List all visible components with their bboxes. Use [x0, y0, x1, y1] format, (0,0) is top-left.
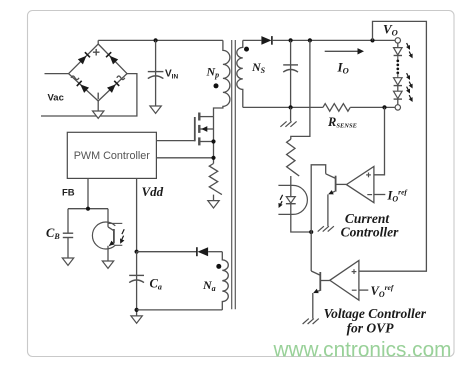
LED D3 light arrows: [407, 43, 409, 47]
op-amp U4 minus: [352, 289, 357, 291]
bridge diode D4 (bottom-right): [107, 84, 116, 93]
capacitor Ca plates: [129, 274, 144, 276]
node bottom rail ground junction: [289, 105, 293, 109]
LED D5 light arrows: [407, 87, 409, 91]
phototransistor arc: [92, 222, 115, 249]
wire secondary rail right: [272, 39, 395, 41]
wire Q3 emitter to ground: [312, 293, 314, 319]
wire Q3 base to opamp: [320, 280, 330, 282]
wire top rail: [98, 39, 223, 41]
wire Q3 collector path: [310, 232, 312, 271]
ground Ca: [131, 316, 142, 323]
wire LED2 lead: [397, 74, 399, 78]
node Ca bottom junction: [135, 308, 139, 312]
bridge diode D3 (bottom-left): [80, 84, 89, 92]
wire Q2 emitter to ground: [327, 194, 329, 226]
wire sense branch: [291, 40, 310, 139]
wire Ca top: [136, 252, 138, 316]
bridge diode D2 (right-top): [110, 56, 119, 65]
wire phototransistor collector stub: [108, 222, 122, 224]
wire secondary bottom left: [243, 106, 323, 108]
node sense junction: [211, 156, 215, 160]
transformer core: [231, 40, 233, 309]
svg-text:Vdd: Vdd: [142, 184, 164, 199]
node current sense junction: [382, 105, 386, 109]
node Q1 source junction: [211, 139, 215, 143]
wire U3 plus input: [374, 107, 385, 174]
LED string ellipsis dots: [396, 60, 399, 63]
transistor Q2 collector diagonal: [326, 174, 335, 178]
node sense branch junction: [308, 38, 312, 42]
capacitor Vin plates: [148, 71, 164, 73]
diode output D1: [261, 36, 271, 45]
wire Q1 body stub: [201, 128, 214, 130]
LED D4: [394, 78, 403, 85]
op-amp U4 triangle: [330, 261, 359, 301]
wire aux return: [137, 309, 223, 311]
transistor Q3 collector diagonal: [311, 271, 320, 275]
phototransistor emitter diagonal: [109, 242, 114, 246]
op-amp U3 minus: [367, 194, 372, 196]
wire LED1 lead: [397, 43, 399, 48]
wire aux diode to Na: [208, 251, 222, 253]
wire OVP rail: [359, 21, 427, 271]
bridge plus mark: [93, 51, 100, 53]
wire bridge bottom to ground: [97, 101, 99, 111]
wire opto LED cathode: [291, 204, 311, 232]
resistor sense: [209, 164, 222, 195]
wire Q1 source stub: [201, 141, 214, 143]
wire bridge output to top rail: [97, 40, 99, 44]
LED D5: [394, 91, 403, 98]
bridge rectifier diamond: [69, 44, 127, 101]
wire PWM current sense: [156, 157, 213, 159]
wire Q1 drain stub: [201, 116, 214, 118]
ground bridge: [93, 111, 104, 118]
ground phototransistor: [102, 261, 113, 268]
svg-text:Controller: Controller: [341, 225, 400, 240]
wire PWM FB pin: [87, 178, 89, 208]
svg-text:PWM Controller: PWM Controller: [74, 150, 151, 162]
node FB junction: [86, 207, 90, 211]
wire CB bottom: [67, 238, 69, 258]
wire phototransistor emitter stub: [115, 244, 122, 246]
node OVP branch junction: [370, 38, 374, 42]
wire FB horizontal: [68, 208, 108, 210]
wire Vac top lead: [45, 73, 69, 75]
ground Vin: [150, 106, 161, 113]
transistor Q2 emitter arrow: [328, 190, 334, 194]
diode aux D2: [198, 247, 209, 256]
bridge ac mark right: [117, 76, 125, 80]
node Vin junction: [154, 38, 158, 42]
arrow Io: [325, 50, 359, 52]
svg-text:FB: FB: [62, 188, 75, 199]
wire CB top: [67, 209, 69, 233]
transistor Q3 base bar: [319, 272, 321, 291]
bridge diode D1 (left-top): [78, 56, 87, 65]
ground Q3: [313, 319, 319, 324]
phototransistor emitter arrow: [109, 241, 115, 246]
node controller junction: [309, 230, 313, 234]
transformer secondary Ns winding: [237, 40, 243, 107]
terminal LED bottom: [395, 105, 400, 110]
wire secondary top: [243, 39, 262, 41]
wire U4 minus input: [359, 289, 368, 291]
resistor Rsense: [323, 104, 350, 112]
transistor Q1 body arrow: [201, 126, 207, 132]
wire LED3 lead: [397, 86, 399, 92]
LED D3: [394, 48, 403, 55]
wire U3 minus input: [374, 194, 385, 196]
optocoupler LED light arrow: [280, 195, 283, 205]
node Na polarity dot: [216, 264, 221, 269]
ground secondary: [290, 121, 296, 126]
ground sense resistor: [208, 201, 219, 208]
op-amp U3 triangle: [346, 167, 374, 203]
capacitor CB: [63, 232, 73, 234]
transformer aux Na winding: [222, 252, 228, 310]
resistor opto series: [287, 139, 300, 176]
wire ground stem: [290, 107, 292, 121]
phototransistor collector diagonal: [108, 227, 114, 231]
transistor Q3 emitter diagonal: [314, 291, 320, 293]
PWM controller box: [67, 132, 156, 178]
wire Q2 collector path: [311, 165, 326, 232]
transistor Q1 gate bar: [194, 117, 196, 141]
wire resistor to ground: [213, 195, 215, 201]
wire PWM Vdd pin: [136, 178, 138, 251]
bridge minus mark: [97, 93, 99, 100]
transistor Q2 base bar: [335, 176, 337, 192]
wire Rsense to LED bottom: [350, 106, 395, 108]
transistor Q2 emitter diagonal: [329, 191, 335, 194]
transistor Q3 emitter arrow: [313, 289, 319, 293]
capacitor output plates: [283, 64, 298, 66]
transformer primary Np winding: [214, 40, 230, 116]
wire Vin cap vertical: [155, 40, 157, 105]
ground Q2: [328, 226, 334, 231]
node output cap junction: [289, 38, 293, 42]
phototransistor base bar: [113, 229, 115, 243]
optocoupler LED D6: [286, 197, 295, 204]
svg-text:Vac: Vac: [48, 93, 64, 104]
svg-text:for OVP: for OVP: [347, 321, 395, 336]
LED D4 light arrows: [407, 73, 409, 77]
wire LED bottom lead: [397, 99, 399, 105]
wire phototransistor collector: [107, 209, 109, 227]
wire output cap vertical: [290, 40, 292, 107]
op-amp U3 plus: [366, 174, 371, 176]
wire phototransistor emitter: [107, 246, 109, 261]
wire LED dots lead: [397, 56, 399, 61]
node Np polarity dot: [214, 83, 219, 88]
wire PWM gate drive: [156, 140, 194, 142]
node Vdd junction: [135, 250, 139, 254]
node Ns polarity dot: [244, 47, 249, 52]
phototransistor light arrow 1: [122, 229, 124, 234]
transistor Q1 channel segments: [198, 113, 200, 121]
op-amp U4 plus: [352, 271, 357, 273]
optocoupler LED arc: [278, 185, 307, 214]
wire Q1 right vertical: [213, 117, 215, 164]
wire Q2 base to opamp: [336, 183, 347, 185]
wire resistor to opto LED: [290, 176, 292, 196]
wire Vac bottom lead: [41, 74, 137, 116]
terminal LED top: [395, 38, 400, 43]
bridge ac mark left: [71, 76, 79, 80]
ground CB: [62, 258, 73, 265]
wire aux rail: [137, 251, 197, 253]
svg-text:www.cntronics.com: www.cntronics.com: [273, 339, 452, 362]
svg-text:Voltage Controller: Voltage Controller: [324, 306, 427, 321]
